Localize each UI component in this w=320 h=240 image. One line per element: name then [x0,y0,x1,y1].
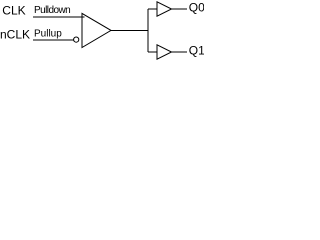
svg-text:Q0: Q0 [189,1,204,15]
wire junction to buffer U2 input [148,8,157,10]
wire junction to buffer U3 input [148,51,157,53]
svg-text:nCLK: nCLK [0,28,30,42]
wire U1 output to junction [111,30,148,32]
svg-text:Pullup: Pullup [34,28,62,39]
inverting bubble on nCLK input [74,37,79,42]
wire CLK input to buffer U1 [33,16,85,18]
wire nCLK input to inverting bubble [33,39,74,41]
buffer U2 (Q0 driver) [157,2,172,17]
op-amp U1 differential input buffer [82,13,111,47]
buffer U3 (Q1 driver) [157,45,172,60]
svg-text:CLK: CLK [2,4,25,18]
wire junction vertical [147,9,149,52]
background [0,0,204,62]
svg-text:Q1: Q1 [189,43,204,57]
wire U2 output to Q0 [172,8,188,10]
wire U3 output to Q1 [172,51,188,53]
svg-text:Pulldown: Pulldown [34,5,70,16]
